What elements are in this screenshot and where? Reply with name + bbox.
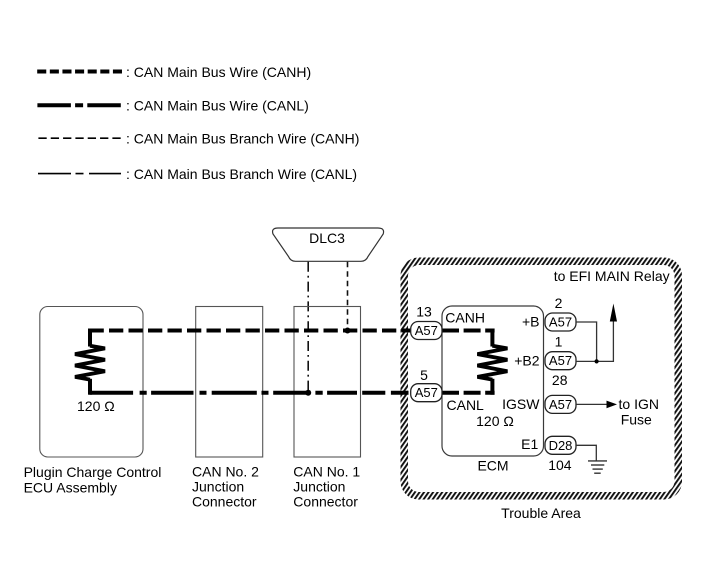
trouble area hatched border [401, 258, 683, 500]
connector oval A57 pin 2 (+B) [545, 313, 576, 331]
svg-text:D28: D28 [549, 438, 573, 453]
connector oval A57 pin 1 (+B2) [545, 352, 576, 370]
svg-text:120 Ω: 120 Ω [476, 413, 514, 429]
svg-text:120 Ω: 120 Ω [77, 398, 115, 414]
svg-text:IGSW: IGSW [502, 396, 540, 412]
connector DLC3 [273, 228, 384, 261]
svg-text:: CAN Main Bus Branch Wire (CA: : CAN Main Bus Branch Wire (CANH) [126, 131, 359, 147]
svg-text:DLC3: DLC3 [309, 230, 345, 246]
connector oval A57 pin 28 (IGSW) [545, 395, 576, 413]
wire: CANL leg in plugin box [88, 379, 92, 395]
svg-text:A57: A57 [549, 397, 572, 412]
svg-text:5: 5 [420, 367, 428, 383]
svg-text:ECM: ECM [477, 458, 508, 474]
svg-text:Connector: Connector [192, 494, 257, 510]
wire: CANH main bus (thick dashed) [90, 329, 411, 333]
svg-text:A57: A57 [415, 323, 438, 338]
svg-text:13: 13 [416, 303, 432, 319]
arrowhead right (to IGN Fuse) [607, 401, 618, 409]
svg-text:Connector: Connector [293, 494, 358, 510]
resistor 120 ohm (ECM) [477, 346, 507, 380]
wire: CANL leg from resistor (ECM) [490, 379, 494, 395]
junction dot on CANH at CAN No.1 [345, 328, 351, 334]
wire: CANH branch from DLC3 (thin dashed) [347, 262, 349, 331]
legend line: CAN Main Bus Branch Wire (CANL) sample [38, 173, 121, 175]
box: Plugin Charge Control ECU Assembly [40, 307, 143, 458]
connector oval A57 pin 5 [411, 384, 442, 402]
svg-text:Fuse: Fuse [621, 411, 652, 427]
svg-text:CAN No. 1: CAN No. 1 [293, 463, 360, 479]
resistor 120 ohm (plugin box) [75, 346, 105, 380]
svg-text:Plugin Charge Control: Plugin Charge Control [24, 464, 162, 480]
wire: CANL inside ECM (thick dashed) [442, 391, 495, 395]
wire: CANH leg in plugin box [88, 329, 92, 347]
svg-text:to IGN: to IGN [619, 396, 659, 412]
svg-text:CANH: CANH [445, 310, 485, 326]
wire: CANL branch from DLC3 (thin dash-dot) [307, 262, 309, 393]
wire: +B pin2 to junction [576, 322, 597, 361]
svg-text:CAN No. 2: CAN No. 2 [192, 463, 259, 479]
wire: E1 D28 to ground [576, 445, 596, 461]
svg-text:Junction: Junction [293, 479, 345, 495]
box: CAN No. 2 Junction Connector [196, 307, 263, 458]
legend line: CAN Main Bus Wire (CANH) sample [37, 70, 122, 74]
legend line: CAN Main Bus Wire (CANL) sample [37, 103, 121, 107]
svg-text:ECU Assembly: ECU Assembly [24, 480, 117, 496]
svg-text:104: 104 [548, 457, 572, 473]
svg-text:CANL: CANL [447, 397, 485, 413]
wire: CANH inside ECM (thick dashed) [442, 329, 495, 333]
svg-text:+B2: +B2 [514, 353, 540, 369]
wire: CANL main bus (thick dash-dot) [90, 391, 411, 395]
ECM box [442, 306, 544, 456]
wire: CANH leg to resistor (ECM) [490, 329, 494, 347]
svg-text:: CAN Main Bus Wire (CANL): : CAN Main Bus Wire (CANL) [126, 98, 309, 114]
svg-text:A57: A57 [549, 315, 572, 330]
svg-text:Junction: Junction [192, 479, 244, 495]
junction dot on CANL at CAN No.1 [305, 390, 311, 396]
svg-text:28: 28 [552, 372, 568, 388]
svg-text:1: 1 [555, 334, 563, 350]
connector oval A57 pin 13 [411, 322, 442, 340]
svg-text:2: 2 [555, 295, 563, 311]
svg-text:Trouble Area: Trouble Area [501, 505, 581, 521]
svg-text:: CAN Main Bus Wire (CANH): : CAN Main Bus Wire (CANH) [126, 64, 311, 80]
svg-text:A57: A57 [549, 353, 572, 368]
ground symbol [588, 461, 607, 473]
wire: IGSW pin28 to IGN fuse arrow [576, 403, 607, 405]
svg-text:: CAN Main Bus Branch Wire (CA: : CAN Main Bus Branch Wire (CANL) [126, 166, 357, 182]
wire: +B2 pin1 to EFI MAIN relay arrow [576, 311, 613, 361]
junction dot +B/+B2 [595, 359, 599, 363]
arrowhead up (to EFI MAIN Relay) [610, 304, 617, 322]
svg-text:to EFI MAIN Relay: to EFI MAIN Relay [554, 268, 670, 284]
connector oval D28 pin 104 (E1) [545, 436, 576, 454]
box: CAN No. 1 Junction Connector [294, 307, 361, 458]
svg-text:E1: E1 [521, 436, 538, 452]
legend line: CAN Main Bus Branch Wire (CANH) sample [38, 137, 120, 139]
svg-text:A57: A57 [415, 385, 438, 400]
svg-text:+B: +B [522, 314, 540, 330]
